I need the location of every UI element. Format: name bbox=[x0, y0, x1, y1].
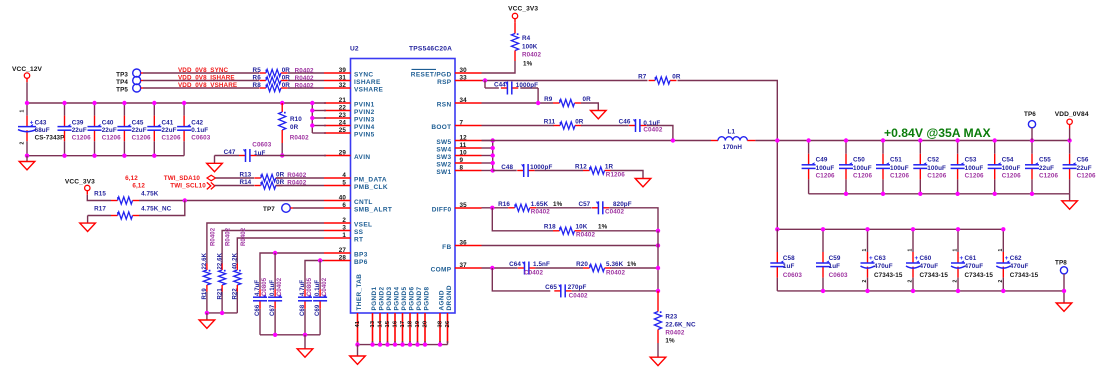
capacitor C66 4.7uF bbox=[253, 287, 267, 335]
label C58 bbox=[783, 255, 802, 279]
junction bbox=[182, 101, 186, 105]
svg-text:C7343-15: C7343-15 bbox=[965, 272, 994, 279]
ground bbox=[1062, 201, 1078, 209]
svg-text:R17: R17 bbox=[94, 206, 106, 213]
svg-text:TP5: TP5 bbox=[116, 86, 128, 93]
svg-text:C0805: C0805 bbox=[262, 277, 268, 296]
svg-text:SW3: SW3 bbox=[436, 154, 451, 161]
label R18 bbox=[544, 224, 608, 239]
power flag VCC_3V3 bbox=[65, 178, 95, 194]
svg-text:R15: R15 bbox=[94, 191, 106, 198]
power flag VDD_0V84 bbox=[1055, 111, 1089, 128]
pin 41 THER_TAB bbox=[355, 274, 363, 343]
junction bbox=[993, 192, 997, 196]
svg-text:0R: 0R bbox=[282, 74, 291, 81]
svg-text:TWI_SDA10: TWI_SDA10 bbox=[164, 175, 201, 182]
svg-text:0R: 0R bbox=[583, 96, 592, 103]
svg-text:2: 2 bbox=[20, 142, 26, 145]
junction bbox=[881, 138, 885, 142]
svg-text:22: 22 bbox=[339, 104, 347, 111]
label C55 bbox=[1039, 157, 1058, 180]
svg-text:100K: 100K bbox=[522, 44, 538, 51]
junction bbox=[806, 138, 810, 142]
junction bbox=[355, 342, 359, 346]
pin 29 AVIN bbox=[324, 149, 370, 161]
svg-text:PGND7: PGND7 bbox=[416, 286, 423, 310]
junction bbox=[491, 168, 495, 172]
svg-text:C1206: C1206 bbox=[890, 172, 909, 179]
svg-text:1uF: 1uF bbox=[829, 263, 841, 270]
resistor R4 100K bbox=[511, 23, 518, 61]
svg-text:100uF: 100uF bbox=[965, 165, 984, 172]
capacitor C68 4.7uF bbox=[298, 287, 312, 335]
label C66 bbox=[255, 277, 268, 316]
svg-text:22uF: 22uF bbox=[1077, 165, 1092, 172]
svg-text:C40: C40 bbox=[102, 119, 114, 126]
junction bbox=[956, 227, 960, 231]
pin 35 DIFF0 bbox=[432, 202, 482, 214]
wire R4 to RESET/PGD bbox=[482, 61, 516, 73]
svg-text:14: 14 bbox=[377, 320, 383, 327]
op-amp U2 TPS546C20A body bbox=[351, 59, 456, 314]
svg-text:C0603: C0603 bbox=[191, 135, 210, 142]
wire R12 to ground bbox=[611, 171, 644, 179]
svg-text:PM_DATA: PM_DATA bbox=[354, 177, 387, 184]
svg-text:26: 26 bbox=[445, 320, 451, 327]
svg-text:C0402: C0402 bbox=[524, 269, 543, 276]
wire R9 to ground bbox=[581, 103, 598, 111]
svg-text:PGND8: PGND8 bbox=[424, 286, 431, 310]
svg-text:L1: L1 bbox=[728, 128, 736, 135]
label C59 bbox=[829, 255, 848, 279]
svg-text:AVIN: AVIN bbox=[354, 154, 370, 161]
svg-text:1%: 1% bbox=[523, 60, 533, 67]
svg-text:6,12: 6,12 bbox=[132, 183, 145, 190]
wire output bank bottom rail bbox=[809, 193, 1070, 195]
svg-text:C69: C69 bbox=[315, 304, 321, 316]
pin 13 PGND1 bbox=[370, 286, 378, 343]
svg-text:15: 15 bbox=[385, 320, 391, 327]
resistor R8 0R bbox=[259, 84, 287, 91]
svg-text:R11: R11 bbox=[544, 118, 556, 125]
label R5 bbox=[253, 67, 315, 75]
pin 4 PM_DATA bbox=[324, 172, 387, 184]
wire lower bank top rail bbox=[777, 228, 1003, 230]
junction bbox=[993, 138, 997, 142]
svg-text:C52: C52 bbox=[927, 157, 939, 164]
ground bbox=[1056, 303, 1072, 311]
wire BP cap bottom rail bbox=[260, 334, 320, 336]
off-page connector TWI_SCL10 bbox=[207, 182, 215, 189]
svg-text:22uF: 22uF bbox=[132, 127, 147, 134]
junction bbox=[273, 251, 277, 255]
label C53 bbox=[965, 157, 984, 180]
junction bbox=[62, 101, 66, 105]
label R6 bbox=[253, 74, 315, 82]
label C61 bbox=[953, 249, 994, 283]
capacitor C53 100uF bbox=[951, 141, 965, 194]
svg-text:2: 2 bbox=[998, 280, 1004, 283]
svg-text:CNTL: CNTL bbox=[354, 199, 373, 206]
svg-text:C43: C43 bbox=[35, 119, 47, 126]
junction R10/AVIN bbox=[280, 153, 284, 157]
wire net VDD_0V8_SYNC bbox=[141, 72, 324, 74]
svg-text:0.1uF: 0.1uF bbox=[191, 127, 208, 134]
junction bbox=[310, 123, 314, 127]
svg-text:C58: C58 bbox=[783, 255, 795, 262]
pin 32 VSHARE bbox=[324, 82, 384, 94]
label R10 bbox=[290, 116, 309, 142]
pin 39 SYNC bbox=[324, 67, 373, 79]
capacitor C65 270pF bbox=[554, 284, 571, 297]
wire R16 to C57 bbox=[536, 207, 591, 209]
svg-text:C50: C50 bbox=[853, 157, 865, 164]
svg-text:C49: C49 bbox=[816, 157, 828, 164]
label C52 bbox=[927, 157, 946, 180]
svg-text:12: 12 bbox=[460, 134, 468, 141]
svg-text:ISHARE: ISHARE bbox=[354, 79, 381, 86]
wire VDD_0V84 to VOUT bbox=[1069, 129, 1071, 141]
svg-text:C48: C48 bbox=[501, 164, 513, 171]
svg-text:R0402: R0402 bbox=[531, 209, 550, 216]
wire net VDD_0V8_VSHARE bbox=[141, 87, 324, 89]
svg-text:R21: R21 bbox=[217, 288, 223, 300]
junction bbox=[955, 192, 959, 196]
svg-text:DIFF0: DIFF0 bbox=[432, 207, 452, 214]
junction bbox=[122, 101, 126, 105]
label R19 bbox=[202, 227, 216, 299]
pin 5 PMB_CLK bbox=[324, 179, 388, 191]
label C64 bbox=[509, 261, 550, 276]
svg-text:VDD_0V8_VSHARE: VDD_0V8_VSHARE bbox=[178, 82, 237, 89]
junction bbox=[378, 342, 382, 346]
svg-text:C64: C64 bbox=[509, 261, 521, 268]
label C46 bbox=[619, 118, 663, 133]
svg-text:R0402: R0402 bbox=[295, 82, 314, 89]
power flag VCC_3V3 top bbox=[508, 6, 538, 23]
wire SW node to L1 bbox=[482, 140, 712, 142]
svg-text:R0402: R0402 bbox=[290, 134, 309, 141]
svg-text:+: + bbox=[915, 255, 919, 262]
capacitor C46 0.1uF bbox=[629, 119, 646, 132]
svg-text:C0402: C0402 bbox=[569, 292, 588, 299]
svg-text:10K: 10K bbox=[576, 224, 588, 231]
svg-text:8: 8 bbox=[460, 164, 464, 171]
svg-text:1%: 1% bbox=[665, 337, 675, 344]
svg-text:37: 37 bbox=[460, 262, 468, 269]
label C47 bbox=[224, 141, 272, 156]
wire to ground from THER_TAB bbox=[357, 345, 359, 356]
svg-text:16: 16 bbox=[392, 320, 398, 327]
svg-text:C0603: C0603 bbox=[829, 272, 848, 279]
svg-text:R18: R18 bbox=[544, 224, 556, 231]
svg-text:5: 5 bbox=[342, 179, 346, 186]
junction bbox=[865, 227, 869, 231]
svg-text:PGND4: PGND4 bbox=[394, 286, 401, 310]
junction bbox=[491, 146, 495, 150]
pin 18 PGND6 bbox=[407, 286, 415, 343]
svg-text:PMB_CLK: PMB_CLK bbox=[354, 184, 388, 191]
capacitor C52 100uF bbox=[913, 141, 927, 194]
power flag VCC_12V bbox=[12, 66, 43, 82]
junction bbox=[775, 227, 779, 231]
junction bbox=[656, 289, 660, 293]
svg-text:29: 29 bbox=[339, 149, 347, 156]
wire RSN net bbox=[482, 102, 554, 104]
svg-text:27: 27 bbox=[339, 247, 347, 254]
svg-text:R16: R16 bbox=[498, 201, 510, 208]
svg-text:39: 39 bbox=[339, 67, 347, 74]
svg-text:10: 10 bbox=[460, 149, 468, 156]
svg-text:R0402: R0402 bbox=[211, 227, 217, 246]
pin 14 PGND2 bbox=[377, 286, 385, 343]
svg-text:PGND1: PGND1 bbox=[371, 286, 378, 310]
svg-text:R0402: R0402 bbox=[576, 232, 595, 239]
wire C57 to FB trunk bbox=[609, 208, 658, 231]
svg-text:SW4: SW4 bbox=[436, 147, 451, 154]
svg-text:4: 4 bbox=[342, 172, 346, 179]
wire BOOT net bbox=[482, 125, 555, 127]
resistor R18 10K bbox=[553, 227, 581, 234]
wire input bank bottom rail bbox=[27, 155, 184, 157]
wire TP8 to rail and ground bbox=[1063, 274, 1065, 303]
capacitor C59 1uF bbox=[816, 229, 830, 291]
pin 19 PGND7 bbox=[415, 286, 423, 343]
label L1 bbox=[723, 128, 743, 151]
svg-text:R22: R22 bbox=[233, 288, 239, 300]
svg-text:1uF: 1uF bbox=[783, 263, 795, 270]
pin 1 RT bbox=[324, 232, 363, 244]
pin 20 PGND8 bbox=[422, 286, 430, 343]
svg-text:TWI_SCL10: TWI_SCL10 bbox=[170, 183, 206, 190]
svg-text:5.36K: 5.36K bbox=[606, 261, 624, 268]
svg-text:22uF: 22uF bbox=[102, 127, 117, 134]
svg-text:1%: 1% bbox=[553, 201, 563, 208]
svg-text:RT: RT bbox=[354, 237, 363, 244]
svg-text:C0603: C0603 bbox=[252, 141, 271, 148]
capacitor C45 bbox=[117, 103, 151, 156]
svg-text:C1206: C1206 bbox=[72, 135, 91, 142]
junction bbox=[1030, 138, 1034, 142]
junction R10 top bbox=[280, 101, 284, 105]
pin 16 PGND4 bbox=[392, 286, 400, 343]
resistor R20 5.36K bbox=[583, 264, 611, 271]
junction bbox=[152, 154, 156, 158]
svg-text:R14: R14 bbox=[239, 179, 251, 186]
svg-text:0R: 0R bbox=[276, 171, 285, 178]
junction bbox=[656, 266, 660, 270]
wire bottom ground rail bbox=[358, 344, 448, 346]
junction bbox=[408, 342, 412, 346]
svg-text:C1206: C1206 bbox=[1077, 172, 1096, 179]
junction bbox=[310, 108, 314, 112]
svg-text:C51: C51 bbox=[890, 157, 902, 164]
wire R15 to CNTL pin 40 bbox=[139, 200, 324, 202]
junction bbox=[122, 154, 126, 158]
svg-text:RESET/PGD: RESET/PGD bbox=[411, 72, 452, 79]
ground bbox=[80, 223, 96, 231]
svg-text:SS: SS bbox=[354, 229, 364, 236]
capacitor C67 0.1uF bbox=[268, 287, 282, 335]
label C50 bbox=[853, 157, 872, 180]
svg-text:C0402: C0402 bbox=[322, 277, 328, 296]
svg-text:PGND3: PGND3 bbox=[386, 286, 393, 310]
pin 6 SMB_ALRT bbox=[324, 202, 392, 214]
junction bbox=[1001, 289, 1005, 293]
wire FB trunk bbox=[657, 231, 659, 291]
svg-text:0R: 0R bbox=[282, 67, 291, 74]
svg-text:TP3: TP3 bbox=[116, 71, 128, 78]
svg-text:SYNC: SYNC bbox=[354, 72, 373, 79]
test point TP8 bbox=[1055, 259, 1068, 274]
svg-text:1uF: 1uF bbox=[254, 150, 266, 157]
svg-text:20: 20 bbox=[422, 321, 428, 328]
label C54 bbox=[1002, 157, 1021, 180]
svg-text:0.1uF: 0.1uF bbox=[315, 280, 321, 296]
wire TWI_SDA10 bbox=[216, 177, 255, 179]
junction bbox=[385, 342, 389, 346]
svg-text:C57: C57 bbox=[578, 201, 590, 208]
label R20 bbox=[576, 261, 636, 276]
pin 27 BP3 bbox=[324, 247, 368, 259]
svg-text:22uF: 22uF bbox=[1039, 165, 1054, 172]
svg-text:SW1: SW1 bbox=[436, 169, 451, 176]
svg-text:1%: 1% bbox=[598, 224, 608, 231]
svg-text:1R: 1R bbox=[605, 163, 614, 170]
wire VOUT rail bbox=[755, 140, 1069, 142]
svg-text:C44: C44 bbox=[494, 81, 506, 88]
svg-text:PVIN3: PVIN3 bbox=[354, 117, 375, 124]
test point TP5 bbox=[116, 84, 141, 93]
pin 3 SS bbox=[324, 224, 364, 236]
svg-text:31: 31 bbox=[339, 74, 347, 81]
wire R22 net bbox=[237, 238, 324, 264]
pin 34 RSN bbox=[437, 97, 482, 109]
label R9 bbox=[544, 96, 591, 103]
svg-text:38: 38 bbox=[437, 320, 443, 327]
junction bbox=[918, 138, 922, 142]
svg-text:C45: C45 bbox=[132, 119, 144, 126]
svg-text:2: 2 bbox=[342, 217, 346, 224]
label R13 bbox=[239, 171, 306, 179]
svg-text:PVIN4: PVIN4 bbox=[354, 124, 375, 131]
label C49 bbox=[816, 157, 835, 180]
svg-text:1: 1 bbox=[342, 232, 346, 239]
capacitor C60 470uF bbox=[906, 229, 920, 291]
svg-text:4.75K_NC: 4.75K_NC bbox=[141, 206, 172, 213]
svg-text:R5: R5 bbox=[253, 67, 262, 74]
svg-text:PGND6: PGND6 bbox=[409, 286, 416, 310]
junction bbox=[273, 333, 277, 337]
svg-text:4.7uF: 4.7uF bbox=[255, 280, 261, 296]
svg-text:BP3: BP3 bbox=[354, 252, 368, 259]
junction bbox=[393, 342, 397, 346]
svg-text:TP7: TP7 bbox=[263, 206, 275, 213]
svg-text:22.6K: 22.6K bbox=[217, 252, 223, 269]
label C68 bbox=[300, 277, 313, 316]
junction bbox=[490, 206, 494, 210]
junction bbox=[821, 289, 825, 293]
svg-text:C63: C63 bbox=[874, 255, 886, 262]
svg-text:2: 2 bbox=[953, 280, 959, 283]
junction bbox=[956, 289, 960, 293]
svg-text:SMB_ALRT: SMB_ALRT bbox=[354, 207, 392, 214]
ground bbox=[635, 179, 651, 187]
junction bbox=[92, 101, 96, 105]
capacitor C54 100uF bbox=[988, 141, 1002, 194]
pin 2 VSEL bbox=[324, 217, 372, 229]
svg-text:33: 33 bbox=[460, 74, 468, 81]
ground bbox=[350, 356, 366, 364]
junction bbox=[303, 333, 307, 337]
svg-text:100uF: 100uF bbox=[927, 165, 946, 172]
svg-text:R23: R23 bbox=[665, 313, 677, 320]
junction bbox=[92, 154, 96, 158]
svg-text:68uF: 68uF bbox=[35, 127, 50, 134]
svg-text:VSEL: VSEL bbox=[354, 222, 372, 229]
svg-text:270pF: 270pF bbox=[568, 284, 587, 291]
svg-text:22uF: 22uF bbox=[72, 127, 87, 134]
pin 33 RSP bbox=[437, 74, 481, 86]
svg-text:PGND2: PGND2 bbox=[379, 286, 386, 310]
junction bbox=[821, 227, 825, 231]
svg-text:+0.84V @35A MAX: +0.84V @35A MAX bbox=[884, 126, 991, 140]
svg-text:C61: C61 bbox=[965, 255, 977, 262]
svg-text:U2: U2 bbox=[350, 46, 359, 53]
wire VCC_12V to rail bbox=[26, 82, 28, 103]
junction bbox=[918, 192, 922, 196]
resistor R17 4.75K_NC bbox=[88, 216, 111, 224]
junction C44 tap bbox=[483, 78, 487, 82]
junction bbox=[844, 138, 848, 142]
ground bbox=[650, 357, 666, 365]
wire C69 tap bbox=[319, 261, 321, 288]
svg-text:1: 1 bbox=[953, 249, 959, 252]
svg-text:BP6: BP6 bbox=[354, 259, 368, 266]
svg-text:R0402: R0402 bbox=[226, 227, 232, 246]
capacitor C58 1uF bbox=[770, 229, 784, 291]
junction bbox=[844, 192, 848, 196]
junction bbox=[911, 227, 915, 231]
svg-text:1: 1 bbox=[908, 249, 914, 252]
junction bbox=[491, 161, 495, 165]
junction bbox=[911, 289, 915, 293]
junction bbox=[491, 153, 495, 157]
wire R11 to C46 bbox=[581, 125, 629, 127]
capacitor C57 820pF bbox=[592, 201, 609, 214]
svg-text:R10: R10 bbox=[290, 116, 302, 123]
wire to ground bbox=[304, 335, 306, 349]
svg-text:C55: C55 bbox=[1039, 157, 1051, 164]
svg-text:1.65K: 1.65K bbox=[531, 201, 549, 208]
resistor R12 1R bbox=[583, 167, 611, 174]
svg-text:C0603: C0603 bbox=[783, 272, 802, 279]
svg-text:24: 24 bbox=[339, 119, 347, 126]
svg-text:0R: 0R bbox=[575, 118, 584, 125]
svg-text:VCC_12V: VCC_12V bbox=[12, 66, 43, 73]
junction bbox=[881, 192, 885, 196]
svg-text:DRGND: DRGND bbox=[446, 285, 453, 310]
capacitor C50 100uF bbox=[839, 141, 853, 194]
ground bbox=[199, 320, 215, 328]
svg-text:C0402: C0402 bbox=[277, 277, 283, 296]
pin 26 DRGND bbox=[445, 285, 453, 343]
svg-text:C67: C67 bbox=[270, 304, 276, 316]
wire TP7 to pin 6 bbox=[290, 207, 324, 209]
svg-text:+: + bbox=[869, 255, 873, 262]
svg-text:PGND5: PGND5 bbox=[401, 286, 408, 310]
junction bbox=[62, 154, 66, 158]
